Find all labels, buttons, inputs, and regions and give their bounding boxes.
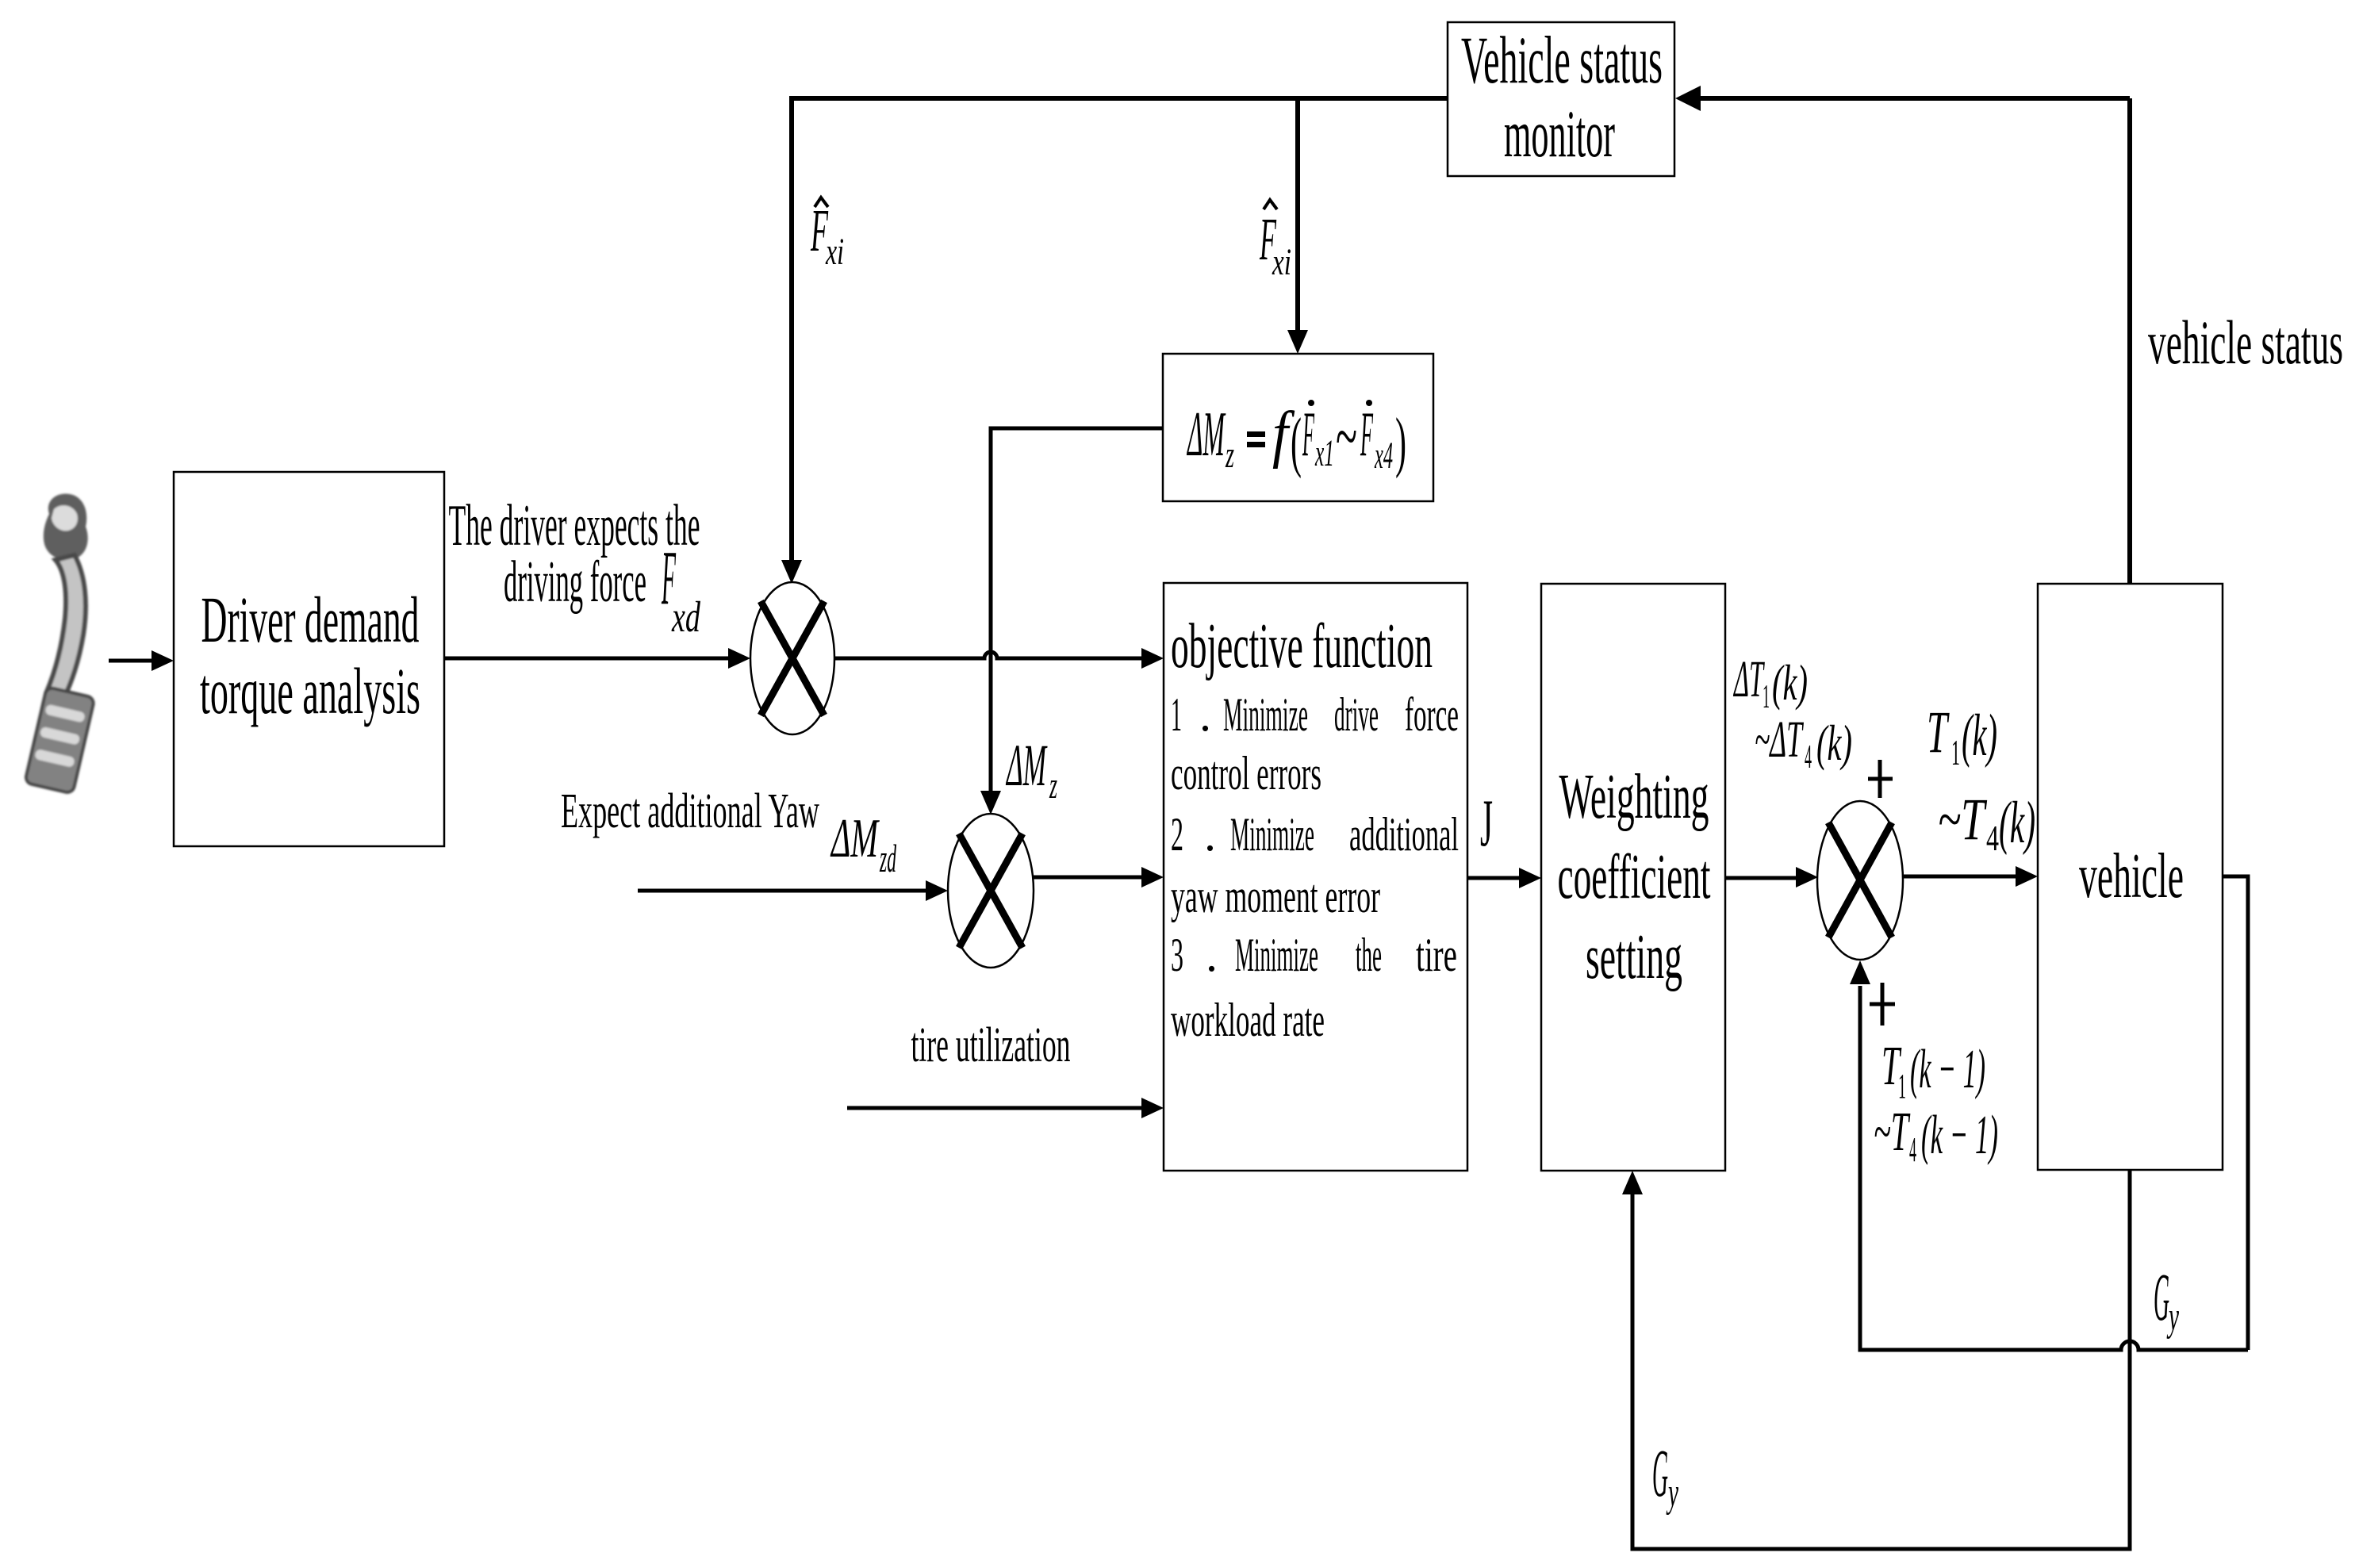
svg-text:(: (: [1291, 404, 1302, 479]
arrowhead into E2 left: [926, 880, 948, 901]
arrowhead up into E3 bottom: [1850, 960, 1870, 984]
svg-text:yaw moment error: yaw moment error: [1171, 870, 1380, 922]
label: delta-Mzd: [830, 808, 896, 880]
arrowhead into E3 left: [1796, 867, 1818, 888]
label: delta-T1(k): [1733, 650, 1808, 715]
svg-text:(k): (k): [1816, 715, 1852, 771]
arrowhead into objective box (first input): [1141, 648, 1164, 669]
svg-text:xi: xi: [1272, 241, 1291, 283]
svg-text:ΔM: ΔM: [1187, 400, 1226, 470]
svg-text:Minimize: Minimize: [1223, 688, 1308, 741]
svg-text:2: 2: [1171, 808, 1183, 861]
svg-text:ΔT: ΔT: [1733, 650, 1766, 708]
svg-text:Minimize: Minimize: [1230, 808, 1314, 861]
svg-text:ΔM: ΔM: [830, 808, 880, 869]
svg-text:control errors: control errors: [1171, 747, 1321, 799]
svg-text:~T: ~T: [1874, 1102, 1911, 1163]
block: vehicle: [2038, 584, 2223, 1170]
arrowhead into objective box (third input): [1141, 1098, 1164, 1118]
svg-text:workload rate: workload rate: [1171, 994, 1325, 1046]
svg-text:~ΔT: ~ΔT: [1755, 711, 1804, 769]
arrowhead into driver box: [152, 650, 174, 671]
svg-text:4: 4: [1986, 818, 1999, 858]
svg-text:F: F: [1302, 400, 1315, 470]
label: T1(k-1): [1881, 1036, 1985, 1106]
svg-text:4: 4: [1805, 739, 1812, 776]
label: Gy (bottom feedback): [1652, 1435, 1679, 1516]
svg-text:F: F: [1360, 400, 1374, 470]
svg-text:Weighting: Weighting: [1559, 762, 1709, 832]
svg-text:(k): (k): [1962, 703, 1997, 769]
svg-text:coefficient: coefficient: [1558, 842, 1711, 912]
icon: accelerator pedal: [25, 493, 94, 793]
svg-text:z: z: [1225, 434, 1234, 476]
wire: J from objective box to weighting box: [1467, 876, 1521, 880]
svg-text:3: 3: [1171, 929, 1183, 981]
block: Weighting coefficient setting: [1541, 584, 1725, 1171]
svg-text:.: .: [1204, 808, 1216, 861]
svg-text:force: force: [1405, 688, 1459, 741]
svg-text:additional: additional: [1349, 808, 1459, 861]
wire: Fxi drop at x998 down to summing ellipse E1: [789, 96, 794, 562]
svg-text:1: 1: [1898, 1067, 1906, 1106]
svg-text:xi: xi: [825, 231, 844, 273]
summing junction E1 (multiplier circle with X): [750, 582, 834, 734]
wire: pedal to driver-demand box: [109, 659, 153, 663]
svg-text:drive: drive: [1334, 688, 1379, 741]
label: ~delta-T4(k): [1755, 711, 1852, 776]
svg-text:G: G: [2154, 1259, 2169, 1335]
label: plus sign below E3: [1870, 983, 1895, 1026]
svg-text:Minimize: Minimize: [1235, 929, 1318, 981]
arrowhead into weighting box: [1519, 868, 1541, 888]
svg-text:.: .: [1206, 929, 1218, 981]
svg-text:~T: ~T: [1938, 787, 1988, 853]
label: T1(k): [1927, 700, 1997, 772]
svg-text:x1: x1: [1314, 432, 1334, 474]
label: ~T4(k-1): [1874, 1102, 1998, 1169]
wire: Gy from vehicle bottom down, left along bottom, and up into weighting box: [1632, 1170, 2130, 1549]
block: Driver demand torque analysis: [174, 472, 444, 846]
label: ~T4(k): [1938, 787, 2035, 858]
svg-text:ΔM: ΔM: [1006, 733, 1048, 799]
svg-text:xd: xd: [671, 592, 700, 641]
arrowhead into monitor box (left-pointing): [1675, 86, 1701, 111]
label: Gy (right feedback): [2154, 1259, 2180, 1340]
svg-text:(k − 1): (k − 1): [1921, 1105, 1998, 1166]
svg-text:vehicle: vehicle: [2079, 842, 2184, 911]
svg-text:1: 1: [1171, 688, 1182, 741]
svg-text:monitor: monitor: [1504, 97, 1615, 171]
label: Fxi hat (left): [811, 197, 844, 273]
svg-text:zd: zd: [880, 836, 897, 880]
arrowhead down into dMz box top: [1287, 330, 1308, 354]
svg-text:y: y: [2166, 1294, 2179, 1340]
svg-text:the: the: [1356, 929, 1382, 981]
svg-text:objective function: objective function: [1171, 611, 1433, 681]
svg-text:4: 4: [1909, 1130, 1916, 1169]
svg-text:Expect additional Yaw: Expect additional Yaw: [561, 784, 819, 838]
block: Vehicle status monitor: [1448, 22, 1674, 176]
svg-text:vehicle status: vehicle status: [2148, 308, 2343, 377]
wire: T(k-1) feedback left with hop over x2685 then up into E3 bottom: [1860, 986, 2248, 1350]
svg-text:torque analysis: torque analysis: [200, 654, 420, 727]
svg-text:J: J: [1480, 786, 1493, 861]
summing junction E2 (multiplier circle with X): [948, 814, 1034, 968]
svg-text:1: 1: [1951, 732, 1960, 772]
svg-text:~: ~: [1336, 397, 1357, 476]
svg-text:(k): (k): [1772, 654, 1808, 711]
label: plus sign above E3: [1868, 760, 1893, 798]
arrowhead up into weighting box bottom: [1622, 1171, 1643, 1194]
svg-text:tire: tire: [1416, 929, 1457, 981]
svg-text:.: .: [1199, 688, 1211, 741]
svg-text:driving force: driving force: [504, 550, 646, 615]
wire: tire utilization input: [847, 1106, 1143, 1110]
wire: weighting box to E3: [1725, 876, 1797, 880]
svg-text:(k): (k): [1999, 790, 2035, 856]
wire: E1 output to objective box with hop over x1249: [834, 652, 1143, 658]
svg-text:T: T: [1927, 700, 1950, 765]
svg-text:G: G: [1652, 1435, 1668, 1511]
wire: driver box to E1: [444, 657, 730, 661]
svg-text:tire utilization: tire utilization: [911, 1018, 1071, 1072]
arrowhead down into E2 top: [980, 791, 1001, 815]
svg-text:(k − 1): (k − 1): [1910, 1039, 1985, 1100]
wire: dMz box left output, left then down into E2 top: [991, 428, 1163, 792]
label: Fxi hat (middle): [1260, 200, 1291, 283]
arrowhead down into E1 top: [781, 560, 802, 584]
summing junction E3 (multiplier circle with X): [1817, 801, 1903, 960]
svg-text:z: z: [1049, 765, 1057, 807]
svg-text:x4: x4: [1374, 435, 1393, 477]
block: delta-Mz = f(Fx1~Fx4): [1163, 354, 1433, 501]
block: objective function: [1164, 583, 1467, 1171]
svg-text:y: y: [1666, 1470, 1678, 1516]
wire: Fxi drop at x1636 down to dMz box: [1295, 96, 1300, 332]
wire: top feedback Fxi horizontal from node x998 to monitor box: [792, 96, 1448, 101]
arrowhead into objective box (second input): [1141, 867, 1164, 888]
arrowhead into E1 left: [728, 648, 750, 669]
svg-text:Vehicle status: Vehicle status: [1461, 23, 1663, 98]
wire: E2 output to objective box: [1033, 876, 1143, 880]
label: The driver expects the driving force Fxd: [449, 493, 701, 641]
svg-text:): ): [1395, 404, 1406, 479]
wire: vehicle output right then down to y1702: [2223, 876, 2248, 1350]
wire: E3 output to vehicle box: [1902, 875, 2017, 879]
wire: dMzd input arrow to E2: [638, 889, 927, 893]
svg-text:Driver demand: Driver demand: [201, 583, 420, 656]
arrowhead into vehicle box: [2016, 866, 2038, 887]
label: delta-Mz (into E2): [1006, 733, 1058, 807]
svg-text:setting: setting: [1586, 922, 1682, 992]
wire: vehicle-status line from monitor box (arrow) right to x2685: [1697, 96, 2130, 101]
wire: vertical vehicle status x2685 down to vehicle box top: [2127, 98, 2132, 584]
